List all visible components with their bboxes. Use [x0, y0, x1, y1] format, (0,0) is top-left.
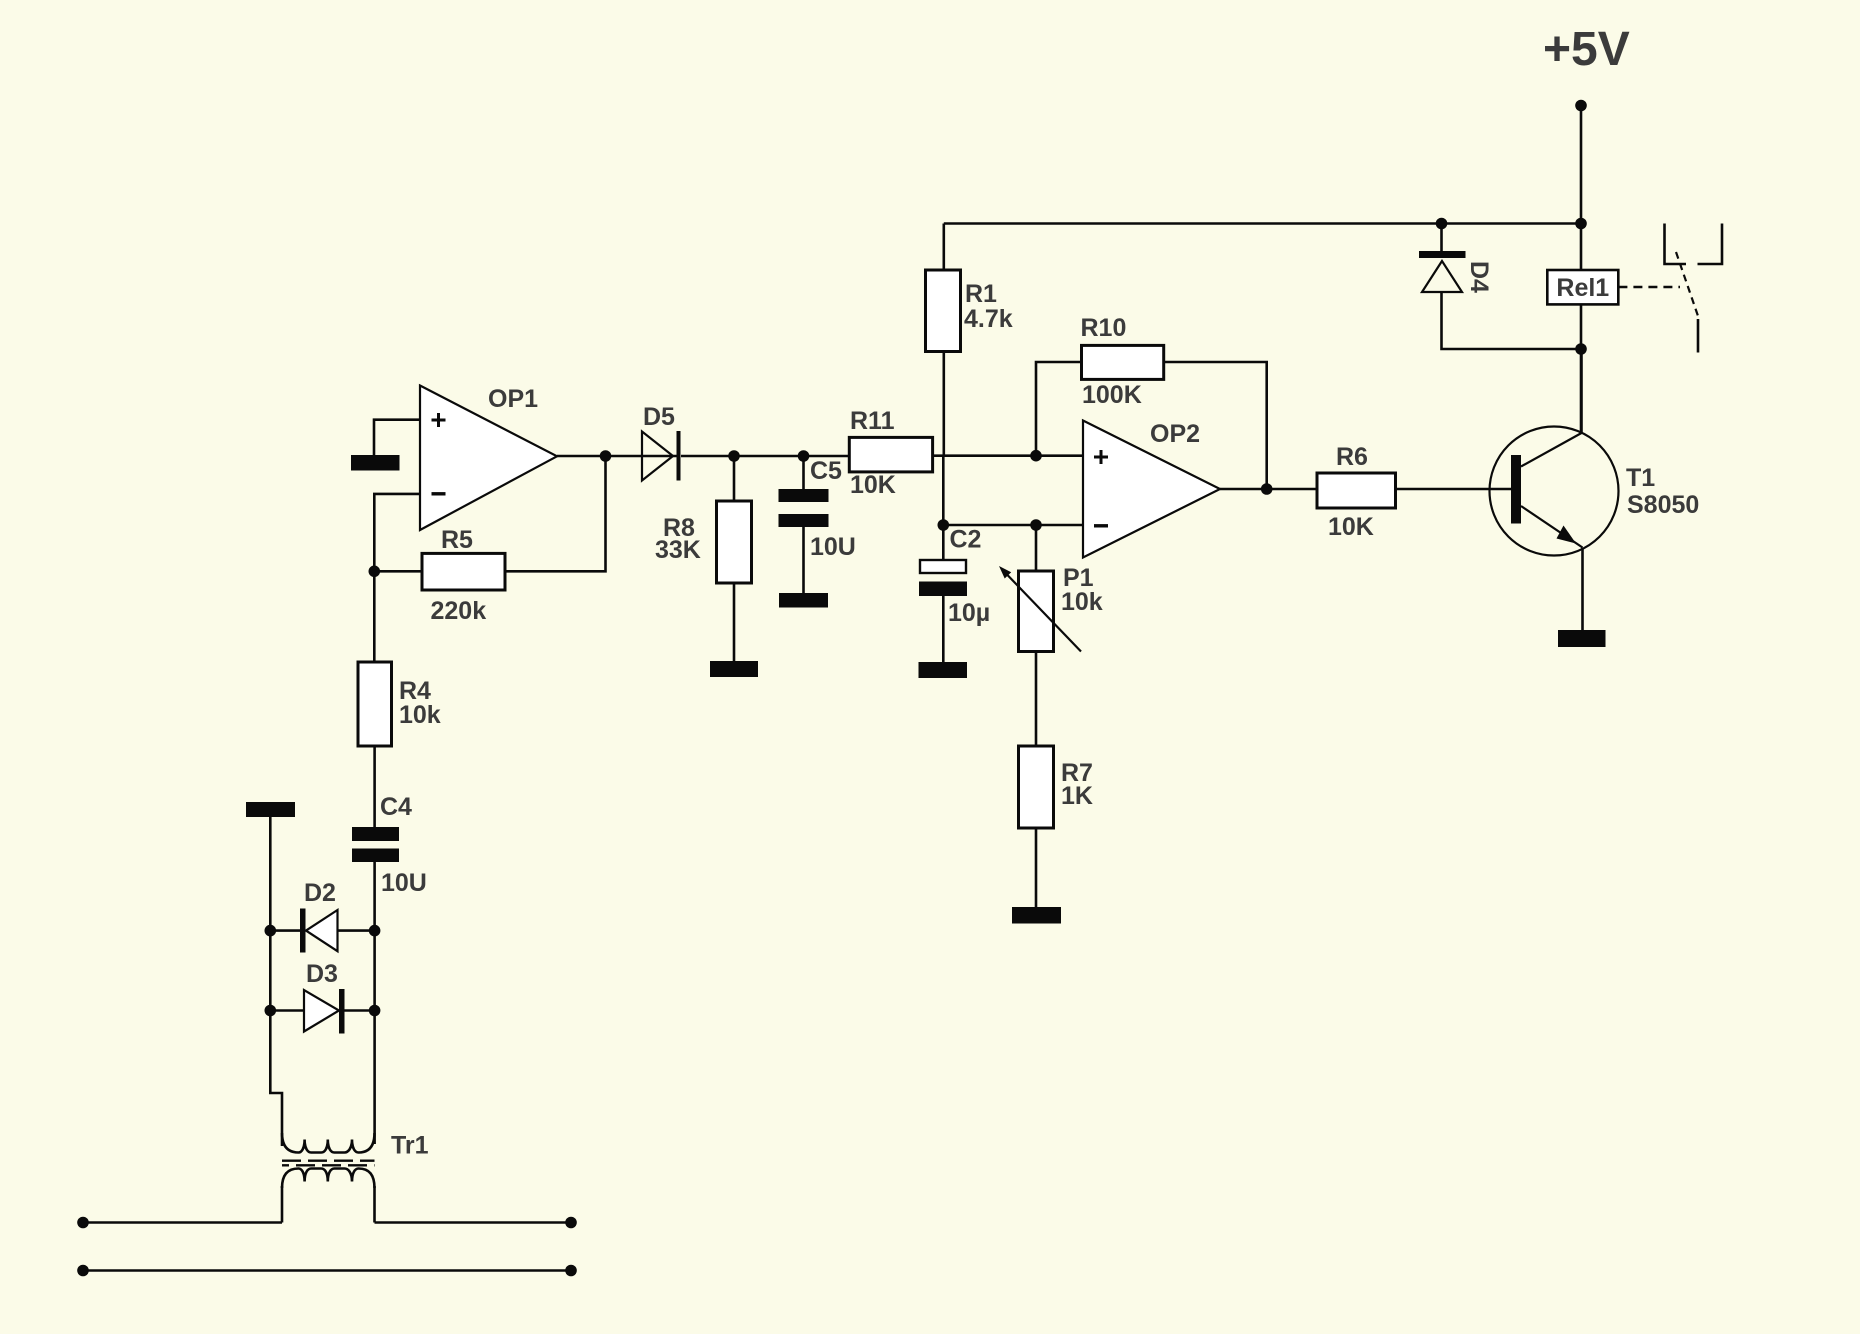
wire: R8 bottom lead [733, 583, 736, 661]
wire: feedback node down to R4 [373, 571, 376, 662]
svg-text:10K: 10K [1328, 513, 1374, 541]
transistor T1 [1490, 427, 1619, 556]
node: feedback junction [369, 566, 381, 578]
wire: D5 to R11 [681, 455, 849, 458]
wire: top rail [944, 222, 1581, 225]
wire: OP1 output [557, 455, 677, 458]
wire: R11 right lead to OP2 + input [933, 454, 1083, 457]
wire: D2 node to D3 node [373, 931, 376, 1011]
svg-text:Tr1: Tr1 [391, 1132, 429, 1160]
wire: T1 emitter to ground [1581, 548, 1584, 631]
node: R8 junction [728, 450, 740, 462]
capacitor C4 [352, 827, 399, 862]
diode D5 [642, 431, 681, 481]
svg-text:220k: 220k [431, 597, 487, 625]
wire: C2 bottom lead [942, 596, 945, 662]
svg-text:T1: T1 [1626, 464, 1655, 492]
resistor R1 [926, 270, 961, 352]
wire: secondary left lead [281, 1186, 284, 1223]
wire: P1 top lead [1035, 525, 1038, 571]
ground at R7 [1012, 907, 1061, 924]
node: D2 right junction [369, 925, 381, 937]
wire: relay bottom lead [1580, 304, 1583, 433]
ground at C2 [919, 662, 968, 678]
wire: D3 node down to transformer [373, 1011, 376, 1145]
node: C5 junction [798, 450, 810, 462]
node: D3 right junction [369, 1005, 381, 1017]
svg-text:10k: 10k [1061, 588, 1103, 616]
relay coil Rel1 [1547, 270, 1618, 304]
ground at R8 [710, 661, 758, 677]
wire: OP1 + input [374, 420, 420, 455]
svg-text:R1: R1 [965, 280, 997, 308]
svg-text:10k: 10k [399, 701, 441, 729]
wire: P1 to R7 [1035, 652, 1038, 747]
svg-text:C2: C2 [950, 526, 982, 554]
svg-text:R10: R10 [1081, 314, 1127, 342]
resistor R8 [717, 501, 752, 583]
wire: left branch vertical [270, 817, 282, 1146]
wire: C2 node to OP2 - input [943, 524, 1083, 527]
svg-text:Rel1: Rel1 [1556, 274, 1609, 302]
resistor R7 [1019, 746, 1054, 828]
resistor R10 [1082, 345, 1164, 379]
resistor R4 [358, 662, 392, 746]
ground at OP1 + input [351, 455, 400, 471]
wire: R10 left branch [1036, 362, 1082, 456]
wire: D4 anode lead [1442, 292, 1582, 349]
wire: D2 left lead [270, 929, 300, 932]
wire: C5 bottom lead [802, 527, 805, 593]
node: D2 left junction [265, 925, 277, 937]
resistor R11 [849, 437, 932, 472]
capacitor C2 [919, 560, 967, 596]
svg-text:S8050: S8050 [1627, 491, 1699, 519]
wire: R1 bottom lead [942, 352, 945, 457]
node: line2 right terminal [565, 1265, 577, 1277]
wire: R5 left lead [374, 570, 422, 573]
wire: R4 to C4 [373, 746, 376, 827]
diode D4 [1419, 251, 1466, 292]
wire: D2 right lead [338, 929, 375, 932]
node: junction top rail at +5V line [1575, 218, 1587, 230]
svg-text:D4: D4 [1465, 261, 1493, 293]
node: C2 junction [938, 519, 950, 531]
wire: C2 top lead [942, 525, 945, 560]
wire: output line 1 right [375, 1221, 572, 1224]
wire: R5 right lead feedback [505, 456, 606, 571]
svg-text:10U: 10U [381, 869, 427, 897]
wire: relay actuation dashed link [1618, 286, 1680, 289]
svg-text:R5: R5 [441, 526, 473, 554]
svg-text:OP1: OP1 [488, 385, 538, 413]
relay contact left terminal [1665, 224, 1687, 265]
ground at left branch [246, 802, 295, 817]
wire: OP2 output [1220, 488, 1317, 491]
svg-text:R11: R11 [850, 407, 895, 435]
svg-text:OP2: OP2 [1150, 420, 1200, 448]
svg-text:D2: D2 [304, 879, 336, 907]
op-amp OP1 [420, 386, 557, 531]
svg-text:1K: 1K [1061, 782, 1093, 810]
svg-text:D5: D5 [643, 403, 675, 431]
node: OP2 output junction [1261, 483, 1273, 495]
wire: R6 to T1 base [1396, 488, 1512, 491]
node: OP2 + input junction [1030, 450, 1042, 462]
svg-text:C5: C5 [810, 457, 842, 485]
svg-text:10K: 10K [850, 471, 896, 499]
svg-text:D3: D3 [306, 960, 338, 988]
wire: D3 right lead [345, 1009, 375, 1012]
node: D3 left junction [265, 1005, 277, 1017]
node: P1 junction [1030, 519, 1042, 531]
wire: C5 top lead [802, 456, 805, 489]
wire: +5V down to relay [1580, 106, 1583, 271]
relay contact lever [1676, 252, 1698, 316]
node: +5V terminal [1575, 100, 1587, 112]
diode D2 [300, 909, 338, 953]
wire: R7 bottom lead [1035, 828, 1038, 907]
ground at T1 emitter [1558, 630, 1606, 647]
wire: C4 to D2 node [373, 862, 376, 931]
op-amp OP2 [1083, 421, 1220, 558]
svg-text:10µ: 10µ [948, 599, 990, 627]
resistor R5 [422, 553, 505, 590]
wire: output line 2 [83, 1269, 571, 1272]
svg-text:C4: C4 [380, 793, 412, 821]
node: line1 left terminal [77, 1217, 89, 1229]
node: line2 left terminal [77, 1265, 89, 1277]
node: junction D4 top [1436, 218, 1448, 230]
wire: OP1 - input [374, 494, 420, 571]
wire: output line 1 left [83, 1221, 282, 1224]
wire: T1 collector [1580, 349, 1583, 433]
wire: D4 top lead [1440, 224, 1443, 252]
wire: secondary right lead [373, 1186, 376, 1223]
svg-text:100K: 100K [1082, 381, 1142, 409]
svg-text:4.7k: 4.7k [964, 305, 1013, 333]
node: collector D4 junction [1575, 343, 1587, 355]
wire: D3 left lead [270, 1009, 304, 1012]
wire: R10 right branch [1164, 362, 1267, 489]
ground at C5 [779, 593, 828, 608]
svg-text:33K: 33K [655, 536, 701, 564]
potentiometer P1 [999, 566, 1081, 652]
node: line1 right terminal [565, 1217, 577, 1229]
svg-text:R6: R6 [1336, 443, 1368, 471]
diode D3 [304, 989, 345, 1034]
capacitor C5 [779, 489, 829, 527]
wire: contact lever lead [1697, 319, 1700, 353]
wire: R1 top lead [942, 224, 945, 271]
svg-text:+5V: +5V [1543, 23, 1630, 76]
node: OP1 output junction [600, 450, 612, 462]
wire: R8 top lead [733, 456, 736, 501]
transformer Tr1 [282, 1133, 375, 1188]
svg-text:10U: 10U [810, 533, 856, 561]
resistor R6 [1317, 473, 1396, 508]
wire: R1 node down to C2 node [942, 456, 945, 525]
relay contact right terminal [1698, 224, 1723, 265]
